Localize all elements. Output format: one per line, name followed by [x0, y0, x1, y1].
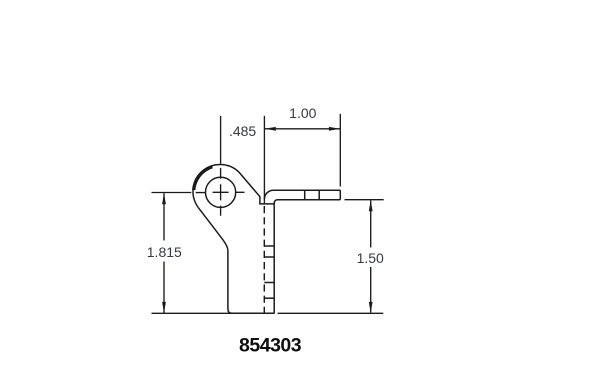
left taper line of lug — [198, 207, 232, 313]
flange top line — [273, 189, 340, 191]
bottom extension line left — [152, 312, 233, 314]
hole circle — [206, 177, 236, 207]
boss outer arc (lug round end) — [193, 164, 241, 207]
leg tick 4 — [264, 297, 274, 299]
dim 1.00 right extension line — [339, 114, 341, 187]
arrow 1.50 top — [369, 200, 373, 211]
bottom line of part — [233, 312, 275, 314]
dim 1.00 dimension line — [265, 128, 340, 130]
hidden (dashed) leg left face — [263, 206, 265, 313]
dim 1.815 dimension line — [163, 193, 165, 313]
svg-text:1.815: 1.815 — [147, 244, 182, 260]
arrow 1.00 left — [265, 127, 276, 131]
leg tick 1 — [264, 245, 274, 247]
svg-text:.485: .485 — [229, 123, 256, 139]
flange bottom line — [278, 199, 341, 201]
flange segment tick 2 — [318, 190, 320, 200]
inner bend fillet — [274, 200, 277, 203]
dim 1.50 top extension line — [345, 199, 384, 201]
outer bend fillet — [264, 190, 273, 199]
centerline horizontal segments + left extension line — [152, 191, 245, 193]
centerline vertical segments — [220, 116, 222, 216]
flange segment tick 1 — [304, 190, 306, 200]
bottom extension line right — [278, 312, 384, 314]
arrow 1.00 right — [329, 127, 340, 131]
svg-text:1.00: 1.00 — [289, 105, 316, 121]
svg-text:854303: 854303 — [239, 335, 302, 357]
leg tick 2 — [264, 256, 274, 258]
right taper line of lug — [241, 175, 274, 204]
leg right face — [273, 203, 275, 313]
arrow 1.50 bottom — [369, 302, 373, 313]
arrow 1.815 top — [162, 193, 166, 204]
leg tick 3 — [264, 282, 274, 284]
leg left face / extension line of .485 and 1.00 — [263, 116, 265, 204]
svg-text:1.50: 1.50 — [357, 250, 384, 266]
dim 1.50 dimension line — [370, 200, 372, 313]
boss thick arc upper-left — [194, 167, 213, 190]
flange right end cap — [339, 190, 341, 200]
arrow 1.815 bottom — [162, 302, 166, 313]
